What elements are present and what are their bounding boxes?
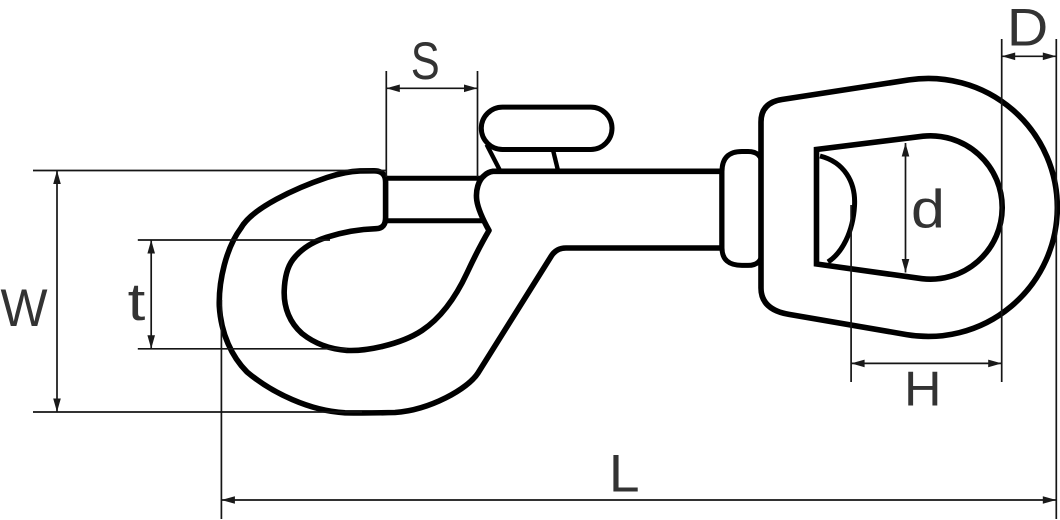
svg-text:D: D (1007, 0, 1048, 58)
svg-text:W: W (0, 279, 47, 338)
svg-text:H: H (904, 363, 942, 417)
svg-text:L: L (609, 444, 640, 503)
svg-text:d: d (911, 180, 945, 240)
svg-text:S: S (411, 32, 440, 91)
svg-text:t: t (128, 273, 146, 332)
